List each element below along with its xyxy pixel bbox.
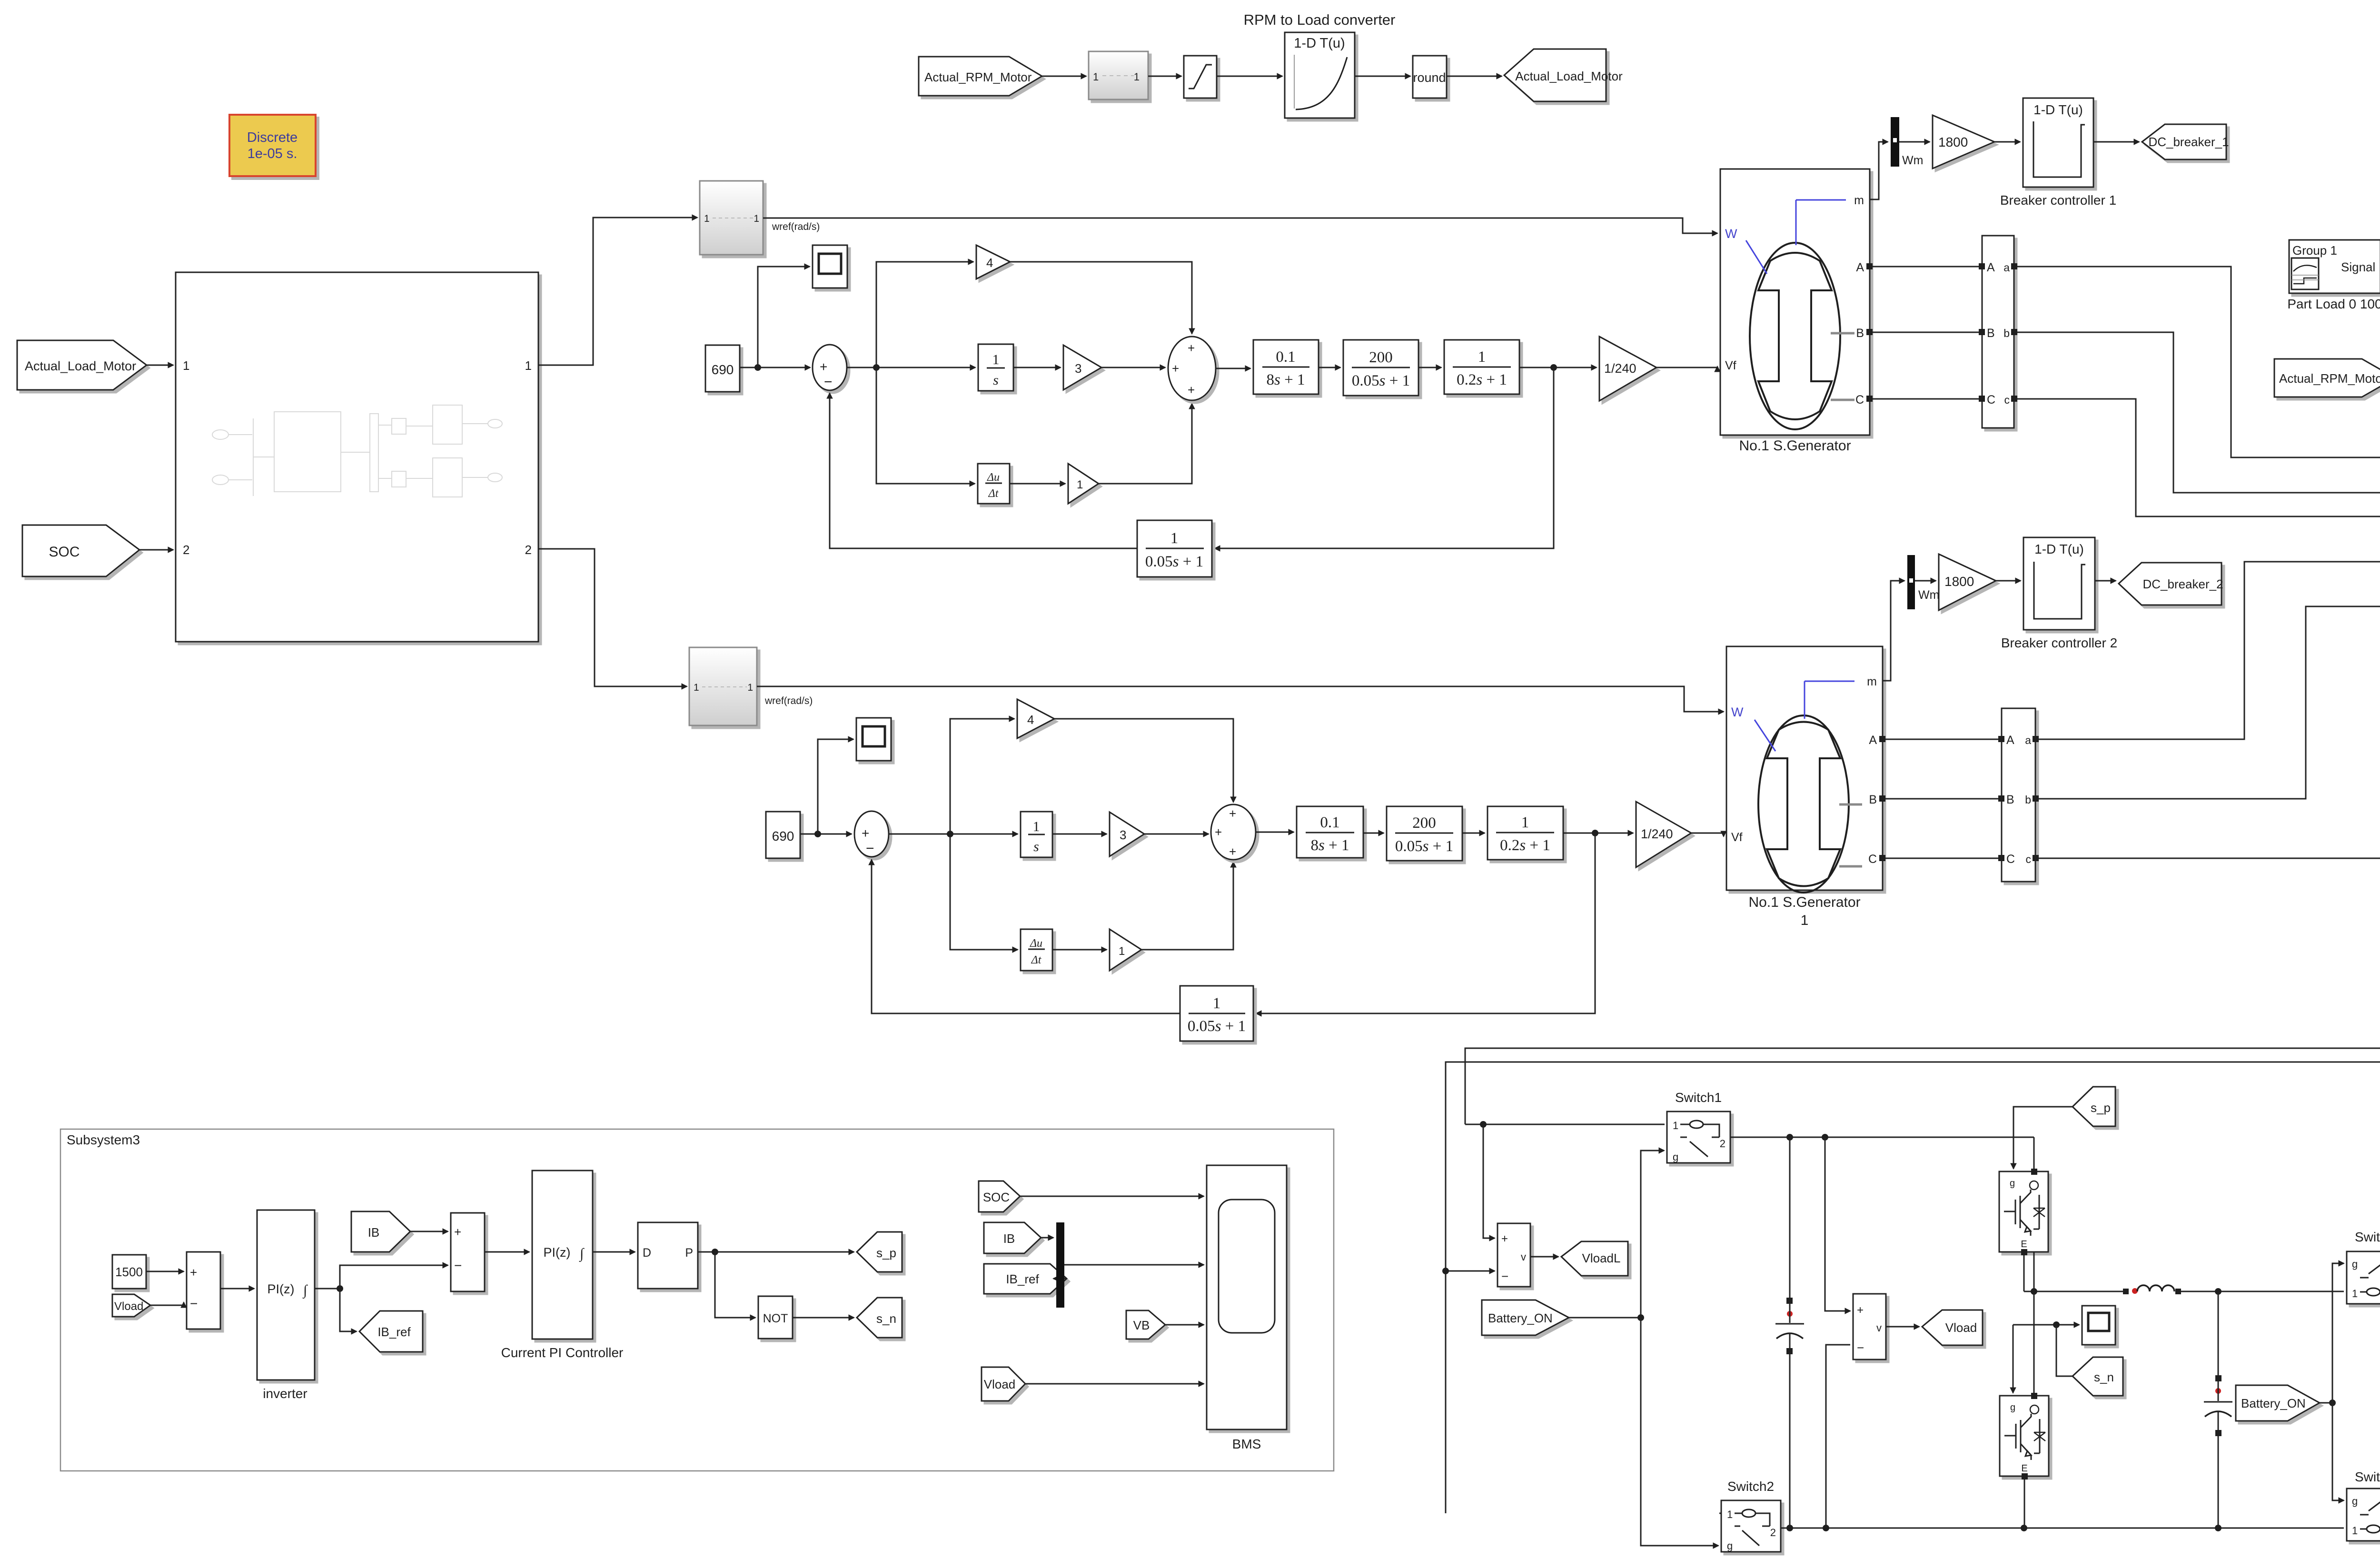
svg-text:1500: 1500 <box>115 1265 143 1279</box>
feedback return wire <box>830 393 1137 548</box>
wire sum to integrator <box>889 834 1018 835</box>
wires generator2 to bus selector2 <box>1885 739 1998 858</box>
NOT block <box>758 1296 793 1339</box>
svg-text:v: v <box>1876 1322 1882 1334</box>
svg-text:+: + <box>1229 844 1236 859</box>
transfer fcn 0.1/(8s+1) <box>1297 806 1363 858</box>
wire <box>1216 368 1250 369</box>
svg-text:No.1 S.Generator: No.1 S.Generator <box>1748 894 1860 910</box>
derivative du/dt <box>978 464 1010 504</box>
svg-text:A: A <box>1856 261 1864 274</box>
svg-text:a: a <box>2025 734 2031 746</box>
svg-text:Δt: Δt <box>988 487 999 500</box>
constant 690 <box>766 812 800 858</box>
svg-text:D: D <box>643 1246 651 1260</box>
svg-text:1: 1 <box>1478 348 1486 366</box>
svg-text:No.1 S.Generator: No.1 S.Generator <box>1739 438 1851 454</box>
Switch4 gate wire <box>2332 1403 2344 1500</box>
transfer fcn 1/(0.2s+1) <box>1487 806 1563 860</box>
svg-text:−: − <box>866 841 874 856</box>
svg-text:200: 200 <box>1412 814 1436 832</box>
wire branch to gain4 <box>950 719 1014 834</box>
svg-text:0.05s + 1: 0.05s + 1 <box>1188 1018 1246 1035</box>
svg-text:3: 3 <box>1075 361 1081 376</box>
svg-text:1: 1 <box>704 213 710 224</box>
svg-text:1-D T(u): 1-D T(u) <box>1294 36 1345 51</box>
wire <box>1144 834 1209 835</box>
svg-text:Battery_ON: Battery_ON <box>1488 1311 1553 1325</box>
svg-text:4: 4 <box>1027 713 1034 727</box>
svg-text:E: E <box>2021 1463 2027 1474</box>
bottom rail <box>1781 1528 2344 1529</box>
svg-text:Vf: Vf <box>1725 359 1736 372</box>
wire to Vf <box>1691 833 1724 836</box>
wire <box>2093 141 2139 143</box>
wire into Switch1 port1 <box>1465 1124 1665 1125</box>
s_p gate wire <box>2013 1107 2073 1169</box>
svg-text:8s + 1: 8s + 1 <box>1267 371 1305 388</box>
svg-text:1: 1 <box>1134 71 1140 83</box>
svg-text:s: s <box>993 372 999 388</box>
wire <box>1418 367 1441 368</box>
wire <box>793 1317 854 1319</box>
wire <box>139 549 173 551</box>
svg-text:0.2s + 1: 0.2s + 1 <box>1457 371 1507 388</box>
wire wref1 to generator W <box>763 218 1717 233</box>
svg-text:P: P <box>685 1246 693 1260</box>
synchronous generator No.1 S.Generator 1 <box>1726 646 1883 890</box>
wire <box>147 365 173 366</box>
wires generator to bus selector <box>1873 267 1979 399</box>
svg-text:1: 1 <box>1727 1508 1733 1520</box>
transfer fcn 200/(0.05s+1) <box>1343 340 1418 396</box>
svg-text:b: b <box>2003 327 2010 339</box>
wire branch to derivative <box>876 367 975 484</box>
wire a to AC3 A <box>2017 267 2380 457</box>
wire <box>1563 833 1633 834</box>
wire output2 to wref2 <box>538 549 687 686</box>
wire <box>1519 367 1597 368</box>
wire <box>1915 580 1936 582</box>
svg-text:b: b <box>2025 794 2031 806</box>
svg-text:Actual_Load_Motor: Actual_Load_Motor <box>1515 69 1623 83</box>
derivative du/dt <box>1021 929 1052 971</box>
mux bar Wm 2 <box>1907 555 1915 609</box>
wire <box>410 1231 448 1232</box>
svg-text:+: + <box>1229 806 1236 821</box>
wire <box>1020 1196 1204 1197</box>
svg-text:1: 1 <box>694 682 699 693</box>
Switch1 output line <box>1730 1137 2034 1138</box>
svg-text:1: 1 <box>1213 995 1221 1012</box>
wire <box>593 1251 635 1253</box>
svg-text:RPM to Load converter: RPM to Load converter <box>1244 11 1396 28</box>
feedback transfer fcn 1/(0.05s+1) <box>1137 520 1212 577</box>
synchronous generator No.1 S.Generator <box>1720 169 1870 435</box>
input tag Actual_RPM_Motor 2 <box>2274 359 2380 397</box>
svg-text:Subsystem3: Subsystem3 <box>67 1132 140 1147</box>
svg-text:DC_breaker_1: DC_breaker_1 <box>2148 135 2229 149</box>
svg-text:1: 1 <box>1801 913 1809 928</box>
voltage measurement VloadL <box>1483 1124 1495 1238</box>
wire wref2 to generator W <box>757 686 1724 712</box>
DC link line <box>2024 1291 2123 1292</box>
scope1 <box>813 245 847 288</box>
wire <box>485 1251 529 1253</box>
constant 690 <box>705 345 740 392</box>
wire gain4 to sum <box>1010 262 1192 334</box>
svg-text:1: 1 <box>1077 478 1083 491</box>
svg-text:Actual_Load_Motor: Actual_Load_Motor <box>25 359 136 373</box>
svg-text:+: + <box>1172 361 1179 376</box>
svg-text:s_n: s_n <box>2094 1370 2114 1384</box>
svg-text:c: c <box>2004 394 2010 406</box>
mux bar <box>1056 1222 1064 1308</box>
integrator 1/s <box>978 344 1013 391</box>
tag s_n battery <box>2073 1357 2123 1396</box>
sum2 of loop1 <box>1168 337 1216 400</box>
svg-text:g: g <box>2010 1402 2015 1413</box>
sum1 <box>813 345 847 390</box>
output tag s_p <box>857 1232 902 1272</box>
wire <box>1052 834 1107 835</box>
output tag Vload <box>1922 1310 1983 1345</box>
svg-text:+: + <box>1857 1304 1864 1317</box>
subsystem generator-load model <box>176 272 538 642</box>
svg-text:m: m <box>1867 675 1877 688</box>
svg-text:Δu: Δu <box>987 471 1000 484</box>
input tag IB_ref 2 <box>984 1264 1067 1294</box>
svg-text:A: A <box>1869 734 1877 747</box>
svg-text:C: C <box>2006 853 2015 866</box>
feedback branch wire <box>1256 833 1595 1013</box>
svg-text:v: v <box>1521 1251 1526 1263</box>
svg-text:m: m <box>1854 194 1864 207</box>
svg-text:Switch2: Switch2 <box>1727 1479 1774 1494</box>
feedback transfer fcn 1/(0.05s+1) <box>1180 986 1253 1041</box>
svg-text:0.05s + 1: 0.05s + 1 <box>1395 838 1453 855</box>
svg-text:+: + <box>1188 341 1195 355</box>
wire <box>740 367 810 368</box>
input tag Battery_ON <box>1482 1300 1569 1335</box>
wire <box>1355 76 1410 77</box>
svg-text:∫: ∫ <box>302 1282 308 1299</box>
wire <box>1363 833 1384 834</box>
output tag Actual_Load_Motor <box>1504 49 1606 101</box>
mux bar Wm <box>1891 117 1899 167</box>
wires into sum <box>146 1271 184 1272</box>
gain 4 <box>976 245 1010 279</box>
svg-text:g: g <box>1673 1151 1678 1163</box>
wire <box>1994 141 2020 143</box>
svg-text:Actual_RPM_Motor: Actual_RPM_Motor <box>2279 371 2380 386</box>
svg-text:wref(rad/s): wref(rad/s) <box>764 695 813 706</box>
svg-text:Current PI Controller: Current PI Controller <box>501 1345 624 1360</box>
svg-text:1: 1 <box>992 352 1000 367</box>
svg-text:PI(z): PI(z) <box>268 1282 295 1296</box>
wire <box>1148 76 1181 77</box>
wire <box>1010 483 1065 485</box>
wire with branch <box>315 1288 340 1290</box>
wire gain4 to sum <box>1054 719 1233 802</box>
wire <box>1165 1324 1204 1326</box>
wire <box>1899 141 1930 143</box>
svg-text:IB_ref: IB_ref <box>1006 1272 1039 1286</box>
svg-text:−: − <box>454 1258 462 1273</box>
sum block 2 <box>451 1213 485 1291</box>
bus selector 1 <box>1982 236 2014 428</box>
svg-text:B: B <box>2006 793 2014 806</box>
gain 1800 <box>1933 115 1994 169</box>
wire to scope1 <box>758 267 810 367</box>
svg-text:wref(rad/s): wref(rad/s) <box>772 221 820 232</box>
svg-text:BMS: BMS <box>1232 1437 1261 1451</box>
voltage measurement Vload <box>1825 1137 1850 1311</box>
wire b to AC3 B1 <box>2039 606 2380 799</box>
svg-text:1: 1 <box>525 358 532 373</box>
gain 1/240 <box>1636 802 1691 867</box>
svg-text:2: 2 <box>183 543 189 557</box>
svg-text:2: 2 <box>1770 1527 1776 1538</box>
wire <box>220 1288 254 1290</box>
svg-text:1800: 1800 <box>1938 135 1968 149</box>
svg-text:E: E <box>2021 1239 2027 1250</box>
svg-text:s_n: s_n <box>876 1311 896 1326</box>
gain 1 <box>1068 464 1099 504</box>
svg-text:1: 1 <box>1033 819 1040 834</box>
sum1 of loop2 <box>854 811 889 857</box>
inverter PI block <box>257 1210 315 1380</box>
input tag SOC <box>22 525 139 576</box>
svg-text:Switch3: Switch3 <box>2355 1230 2380 1244</box>
IGBT 1 <box>1999 1137 2048 1255</box>
svg-text:−: − <box>1501 1269 1508 1283</box>
wire output1 to wref1 <box>538 218 697 365</box>
svg-text:Switch4: Switch4 <box>2355 1469 2380 1484</box>
svg-text:C: C <box>1987 393 1995 407</box>
wire branch to derivative <box>950 834 1018 950</box>
output tag DC_breaker_2 <box>2119 563 2221 605</box>
gain 1800 2 <box>1939 554 1996 610</box>
svg-text:1/240: 1/240 <box>1604 361 1636 376</box>
wire <box>2095 580 2116 582</box>
Switch1 gate wire <box>1641 1151 1664 1318</box>
svg-text:Breaker controller 2: Breaker controller 2 <box>2001 635 2117 650</box>
wire <box>800 834 852 835</box>
svg-text:1: 1 <box>1673 1120 1678 1131</box>
svg-text:0.1: 0.1 <box>1320 814 1339 831</box>
svg-text:−: − <box>190 1296 198 1311</box>
wire m to busbar <box>1870 142 1888 199</box>
svg-text:DC_breaker_2: DC_breaker_2 <box>2142 577 2223 591</box>
svg-text:1: 1 <box>1093 71 1099 83</box>
wire <box>1053 1278 1067 1280</box>
D P block <box>638 1222 698 1289</box>
gain 1/240 <box>1599 337 1656 401</box>
wire to scope2 <box>818 739 853 834</box>
wire <box>1996 580 2021 582</box>
wire to NOT <box>715 1252 755 1318</box>
svg-text:8s + 1: 8s + 1 <box>1311 837 1349 854</box>
bus selector 2 <box>2002 708 2035 882</box>
svg-text:g: g <box>2352 1258 2358 1270</box>
wire to Vf <box>1656 367 1717 367</box>
Switch2 gate wire <box>1641 1318 1718 1546</box>
saturation block <box>1184 56 1217 98</box>
input tag VB <box>1126 1310 1165 1339</box>
svg-text:IB: IB <box>1003 1231 1015 1246</box>
svg-text:1: 1 <box>2352 1525 2358 1537</box>
output tag IB_ref <box>359 1311 423 1352</box>
svg-text:1: 1 <box>1521 814 1529 831</box>
subsystem wref2 rad/s <box>689 647 757 725</box>
svg-text:2: 2 <box>525 543 532 557</box>
svg-text:g: g <box>2352 1495 2358 1507</box>
wire <box>1041 1237 1053 1239</box>
svg-text:IB: IB <box>368 1225 380 1240</box>
subsystem wref1 rad/s <box>700 181 763 255</box>
wire <box>1217 76 1282 77</box>
svg-text:A: A <box>1987 261 1995 274</box>
Discrete sample time block <box>229 115 316 176</box>
svg-text:Group 1: Group 1 <box>2292 243 2337 258</box>
svg-text:1: 1 <box>1170 530 1179 547</box>
svg-text:IB_ref: IB_ref <box>377 1325 411 1339</box>
wire branch to gain4 <box>876 262 973 367</box>
svg-text:Vf: Vf <box>1731 831 1743 844</box>
subsystem3 frame <box>60 1129 1334 1471</box>
svg-text:Battery_ON: Battery_ON <box>2241 1396 2306 1410</box>
svg-text:+: + <box>1188 383 1195 397</box>
wire <box>1101 367 1165 368</box>
svg-text:NOT: NOT <box>763 1312 788 1325</box>
svg-text:C: C <box>1855 393 1864 407</box>
svg-text:−: − <box>824 374 833 390</box>
gain 3 <box>1110 812 1144 856</box>
wire to s_p <box>698 1251 715 1253</box>
IGBT2 emitter wire <box>2024 1479 2025 1528</box>
svg-text:B: B <box>1869 793 1877 806</box>
wire b to AC3 B <box>2017 332 2380 493</box>
svg-text:1: 1 <box>754 213 759 224</box>
svg-text:+: + <box>190 1265 197 1280</box>
svg-text:Δt: Δt <box>1031 954 1042 966</box>
svg-text:Switch1: Switch1 <box>1675 1090 1722 1105</box>
svg-text:PI(z): PI(z) <box>544 1245 571 1260</box>
constant 1500 <box>112 1255 146 1289</box>
svg-text:W: W <box>1725 227 1737 241</box>
svg-text:0.1: 0.1 <box>1276 348 1295 366</box>
IGBT 2 <box>2000 1291 2049 1479</box>
svg-text:1: 1 <box>2352 1288 2358 1300</box>
svg-text:Wm: Wm <box>1918 588 1939 602</box>
scope battery <box>2013 1324 2079 1326</box>
wire <box>1013 367 1061 368</box>
svg-text:4: 4 <box>986 256 993 270</box>
signal builder Part Load 0 100 <box>2289 240 2380 293</box>
input tag SOC 2 <box>979 1181 1020 1212</box>
wire <box>1025 1383 1204 1385</box>
capacitor 1 <box>1789 1137 1791 1298</box>
wire <box>1462 833 1485 834</box>
svg-text:inverter: inverter <box>263 1386 307 1401</box>
svg-text:Vload: Vload <box>114 1300 143 1313</box>
input tag Actual_RPM_Motor <box>919 57 1042 96</box>
svg-text:a: a <box>2003 261 2010 274</box>
svg-text:g: g <box>1727 1540 1733 1552</box>
svg-text:0.05s + 1: 0.05s + 1 <box>1145 553 1203 570</box>
svg-text:Breaker controller 1: Breaker controller 1 <box>2000 193 2116 208</box>
scope2 <box>856 718 891 761</box>
BMS block <box>1207 1165 1287 1429</box>
lookup table RPM to Load converter <box>1285 32 1355 118</box>
transfer fcn 200/(0.05s+1) <box>1387 806 1462 861</box>
gain 3 <box>1063 345 1101 390</box>
svg-text:200: 200 <box>1369 349 1393 366</box>
blue annotation lines <box>1805 681 1854 719</box>
sum block 1 <box>187 1252 220 1329</box>
wire C2 long <box>1446 744 2380 1513</box>
breaker controller 2 lookup <box>2023 537 2095 630</box>
wire <box>1256 832 1294 833</box>
svg-text:1: 1 <box>183 358 189 373</box>
svg-text:1-D T(u): 1-D T(u) <box>2034 542 2084 556</box>
svg-text:C: C <box>1868 853 1877 866</box>
wire sum1 to integrator <box>847 367 975 368</box>
svg-text:SOC: SOC <box>983 1190 1010 1204</box>
feedback branch wire <box>1215 367 1554 548</box>
svg-text:Vload: Vload <box>984 1377 1016 1391</box>
output tag DC_breaker_1 <box>2142 124 2226 159</box>
svg-text:690: 690 <box>772 829 794 844</box>
svg-text:W: W <box>1731 705 1744 719</box>
input tag Vload <box>112 1294 150 1317</box>
gain 4 <box>1017 699 1054 738</box>
current PI controller <box>532 1171 593 1339</box>
svg-text:A: A <box>2006 734 2014 747</box>
svg-text:s_p: s_p <box>2091 1101 2111 1115</box>
Switch3 gate wire <box>2332 1263 2344 1403</box>
svg-text:1-D T(u): 1-D T(u) <box>2033 102 2083 117</box>
wire c to AC3 C1 <box>2039 655 2380 858</box>
capacitor 2 <box>2218 1291 2219 1375</box>
svg-text:s_p: s_p <box>876 1246 896 1260</box>
rate transition block <box>1089 51 1148 99</box>
IGBT2 gate wire <box>2013 1325 2014 1393</box>
svg-text:+: + <box>1215 825 1222 839</box>
svg-text:Wm: Wm <box>1902 154 1923 167</box>
wire <box>1042 76 1086 77</box>
svg-text:VB: VB <box>1133 1318 1150 1332</box>
sum2 of loop2 <box>1211 804 1256 860</box>
svg-text:c: c <box>2026 853 2032 865</box>
svg-text:0.05s + 1: 0.05s + 1 <box>1352 372 1410 389</box>
VloadL minus wire to C2 line <box>1446 1270 1495 1272</box>
svg-text:Part Load 0 100: Part Load 0 100 <box>2287 297 2380 311</box>
wire gain1 to sum bottom <box>1141 862 1233 950</box>
svg-text:Discrete: Discrete <box>247 130 297 145</box>
wire <box>1447 76 1502 77</box>
svg-text:1800: 1800 <box>1944 574 1974 589</box>
round block <box>1413 56 1447 98</box>
input tag Battery_ON 2 <box>2236 1385 2320 1421</box>
svg-text:1/240: 1/240 <box>1641 827 1673 841</box>
Vload minus wire to rail <box>1826 1345 1850 1528</box>
svg-text:B: B <box>1987 327 1995 340</box>
svg-text:−: − <box>1857 1340 1864 1355</box>
svg-text:SOC: SOC <box>49 544 79 560</box>
IGBT1 emitter wire <box>2023 1255 2025 1291</box>
